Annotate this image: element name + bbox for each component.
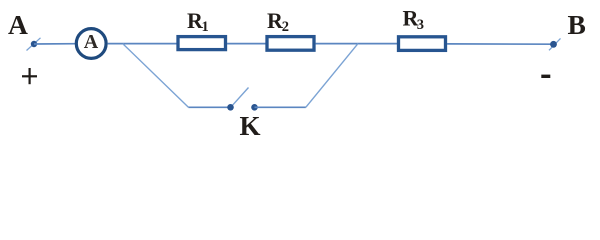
wire R1 to R2 — [227, 43, 266, 45]
svg-text:2: 2 — [282, 19, 289, 35]
wire R2 to R3 — [316, 43, 399, 45]
switch K lever — [232, 88, 249, 106]
node A tick — [27, 38, 41, 51]
wire ammeter to R1 — [108, 43, 177, 45]
svg-text:B: B — [568, 9, 586, 40]
svg-text:A: A — [84, 31, 99, 53]
wire A to ammeter — [34, 43, 77, 45]
resistor R1 — [178, 37, 226, 50]
svg-text:3: 3 — [417, 17, 424, 33]
svg-text:K: K — [240, 111, 261, 141]
plus terminal label — [22, 68, 37, 84]
minus terminal label — [541, 75, 550, 78]
wire junction1 diagonal down — [123, 44, 189, 108]
wire junction2 diagonal down — [306, 44, 358, 108]
svg-text:1: 1 — [202, 19, 209, 35]
wire bottom right run — [255, 106, 306, 108]
wire R3 to B — [447, 43, 554, 45]
switch K left contact — [227, 104, 234, 111]
switch K right contact — [251, 104, 258, 111]
resistor R2 — [267, 37, 314, 51]
resistor R3 — [399, 37, 446, 51]
node A — [31, 41, 37, 47]
node B — [550, 41, 557, 48]
svg-text:A: A — [8, 9, 28, 40]
ammeter U1 — [76, 29, 106, 59]
node B tick — [549, 38, 561, 50]
wire bottom left run — [188, 106, 230, 108]
